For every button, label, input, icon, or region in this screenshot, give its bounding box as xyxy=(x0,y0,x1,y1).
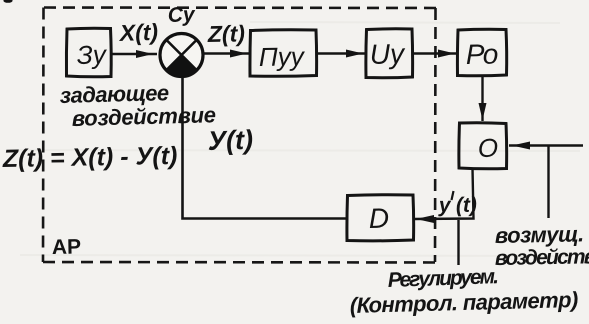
arrowhead xyxy=(438,50,455,58)
svg-text:О: О xyxy=(478,133,499,163)
wire PUU-IU xyxy=(317,52,367,54)
dashed boundary AP box xyxy=(43,8,436,263)
block O xyxy=(459,123,507,169)
block D xyxy=(347,195,414,241)
svg-text:(t): (t) xyxy=(456,194,477,217)
arrowhead down xyxy=(479,103,487,120)
svg-text:X(t): X(t) xyxy=(117,19,158,46)
arrowhead xyxy=(346,50,363,58)
svg-text:Z(t): Z(t) xyxy=(207,20,245,47)
svg-text:Uу: Uу xyxy=(369,38,406,70)
svg-text:У(t): У(t) xyxy=(207,125,253,156)
block ZU xyxy=(66,28,111,77)
svg-text:Пуу: Пуу xyxy=(259,41,306,72)
block RO xyxy=(457,29,506,76)
svg-text:Регулируем.: Регулируем. xyxy=(387,265,498,292)
arrowhead into D xyxy=(416,215,434,223)
svg-text:Ро: Ро xyxy=(466,38,498,70)
svg-text:возмущ.: возмущ. xyxy=(495,221,584,248)
wire IU-RO xyxy=(413,52,459,54)
svg-text:воздейств: воздейств xyxy=(495,245,589,270)
stray ink mark top-left xyxy=(3,0,12,3)
wire X(t) xyxy=(111,53,157,55)
pointer line to caption xyxy=(457,220,459,265)
svg-text:y: y xyxy=(438,194,452,217)
disturbance wire into O xyxy=(509,144,583,146)
wire O to D xyxy=(414,169,474,220)
block PUU xyxy=(250,30,317,77)
svg-text:D: D xyxy=(369,203,390,234)
svg-text:Су: Су xyxy=(167,3,196,27)
arrowhead left xyxy=(512,142,530,150)
feedback wire xyxy=(183,77,348,219)
wire Z(t) xyxy=(203,52,250,54)
svg-text:АР: АР xyxy=(52,235,82,259)
wire RO-O xyxy=(481,76,483,122)
arrowhead X(t) xyxy=(136,50,153,58)
block IU xyxy=(366,29,413,78)
disturbance branch down xyxy=(547,146,549,219)
svg-text:воздействие: воздействие xyxy=(71,102,216,131)
svg-text:Зу: Зу xyxy=(76,39,108,70)
summing junction Cy xyxy=(160,34,203,77)
svg-text:Z(t) = X(t) - У(t): Z(t) = X(t) - У(t) xyxy=(2,142,178,173)
arrowhead Z(t) xyxy=(230,50,247,58)
